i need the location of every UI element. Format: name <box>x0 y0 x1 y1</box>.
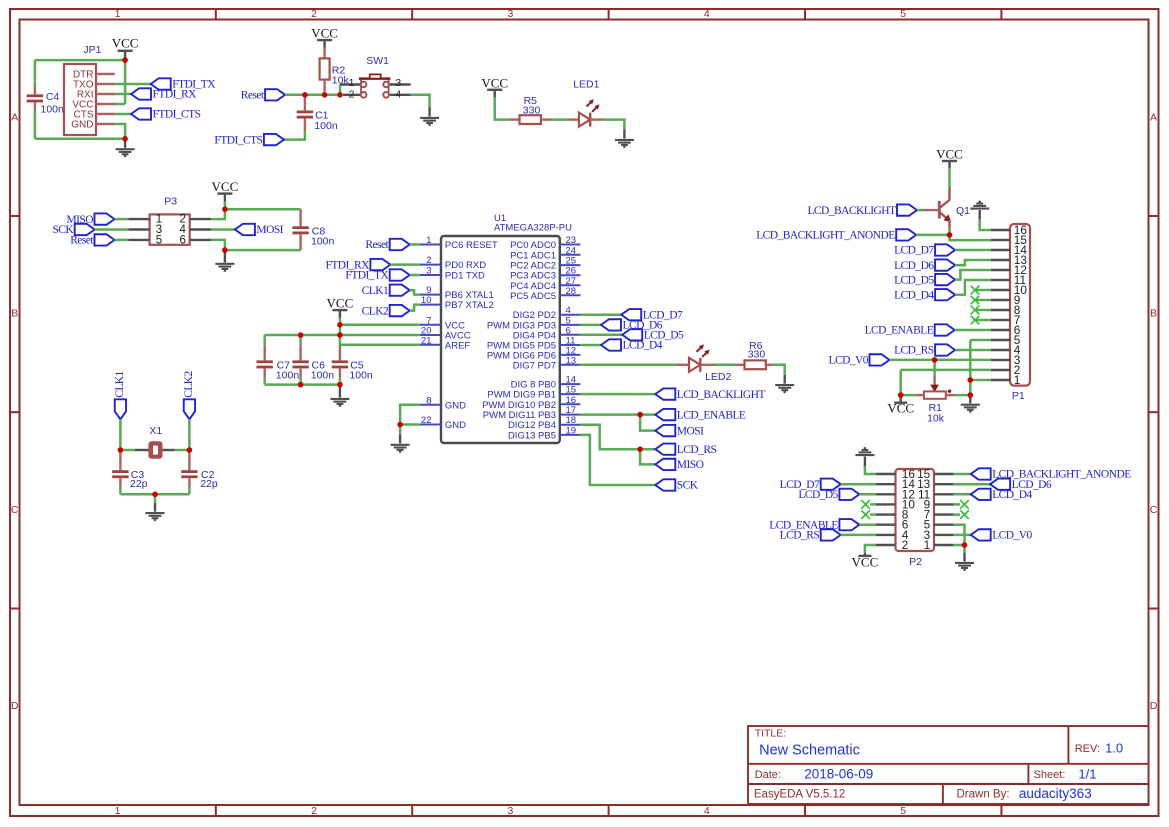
svg-text:CLK2: CLK2 <box>183 370 195 397</box>
svg-text:VCC: VCC <box>311 26 338 41</box>
svg-text:FTDI_CTS: FTDI_CTS <box>153 109 201 121</box>
svg-text:Date:: Date: <box>755 769 781 781</box>
svg-text:CLK1: CLK1 <box>114 370 126 397</box>
svg-text:MOSI: MOSI <box>677 425 704 437</box>
svg-text:10k: 10k <box>332 75 350 87</box>
svg-text:FTDI_CTS: FTDI_CTS <box>214 134 262 146</box>
svg-text:LCD_D5: LCD_D5 <box>798 489 838 501</box>
svg-text:SCK: SCK <box>677 480 699 492</box>
svg-text:LCD_BACKLIGHT: LCD_BACKLIGHT <box>807 205 896 217</box>
svg-text:330: 330 <box>523 104 541 116</box>
svg-text:CLK2: CLK2 <box>362 305 389 317</box>
svg-text:DIG7 PD7: DIG7 PD7 <box>513 360 556 371</box>
svg-text:5: 5 <box>900 805 906 817</box>
svg-text:2: 2 <box>349 89 355 101</box>
svg-text:3: 3 <box>395 77 401 89</box>
svg-text:LCD_D4: LCD_D4 <box>623 340 663 352</box>
svg-text:LCD_D4: LCD_D4 <box>894 289 934 301</box>
svg-text:LED2: LED2 <box>705 371 731 383</box>
svg-text:LCD_RS: LCD_RS <box>894 345 934 357</box>
svg-text:100n: 100n <box>311 369 335 381</box>
svg-text:LCD_V0: LCD_V0 <box>828 355 868 367</box>
svg-text:LCD_D5: LCD_D5 <box>894 274 934 286</box>
svg-text:LCD_BACKLIGHT_ANONDE: LCD_BACKLIGHT_ANONDE <box>756 230 895 242</box>
svg-text:1/1: 1/1 <box>1078 767 1096 782</box>
svg-text:LCD_RS: LCD_RS <box>677 444 717 456</box>
svg-text:PC6 RESET: PC6 RESET <box>445 240 498 251</box>
svg-text:X1: X1 <box>149 425 162 437</box>
svg-text:LCD_D6: LCD_D6 <box>894 260 934 272</box>
svg-text:GND: GND <box>445 400 466 411</box>
svg-text:Reset: Reset <box>241 90 265 102</box>
svg-text:21: 21 <box>421 335 432 346</box>
svg-text:Sheet:: Sheet: <box>1034 769 1066 781</box>
svg-text:Q1: Q1 <box>956 205 970 217</box>
svg-text:LCD_D4: LCD_D4 <box>992 489 1032 501</box>
svg-text:22p: 22p <box>130 478 148 490</box>
svg-text:100n: 100n <box>349 369 373 381</box>
svg-text:2018-06-09: 2018-06-09 <box>804 767 873 782</box>
svg-text:DIG13 PB5: DIG13 PB5 <box>508 430 556 441</box>
svg-text:2: 2 <box>902 538 909 552</box>
svg-text:FTDI_TX: FTDI_TX <box>345 270 389 282</box>
svg-text:100n: 100n <box>41 104 65 116</box>
svg-text:CLK1: CLK1 <box>362 285 389 297</box>
svg-text:3: 3 <box>507 8 513 20</box>
svg-text:Reset: Reset <box>365 239 389 251</box>
svg-text:2: 2 <box>311 8 317 20</box>
svg-text:1: 1 <box>349 77 355 89</box>
svg-text:VCC: VCC <box>936 147 963 162</box>
svg-text:LCD_RS: LCD_RS <box>780 530 820 542</box>
svg-text:VCC: VCC <box>212 179 239 194</box>
svg-text:Reset: Reset <box>70 235 94 247</box>
svg-text:D: D <box>1150 700 1158 712</box>
svg-text:1: 1 <box>426 235 431 246</box>
svg-text:TITLE:: TITLE: <box>755 727 787 739</box>
svg-text:100n: 100n <box>314 120 338 132</box>
svg-text:1: 1 <box>115 805 121 817</box>
svg-text:VCC: VCC <box>887 401 914 416</box>
svg-text:REV:: REV: <box>1075 743 1100 755</box>
svg-text:3: 3 <box>426 266 431 277</box>
svg-text:B: B <box>1150 307 1157 319</box>
svg-text:LED1: LED1 <box>573 78 599 90</box>
svg-text:3: 3 <box>507 805 513 817</box>
svg-text:B: B <box>11 307 18 319</box>
svg-text:8: 8 <box>426 395 431 406</box>
svg-text:10: 10 <box>421 295 432 306</box>
svg-text:JP1: JP1 <box>83 44 101 56</box>
svg-text:D: D <box>11 700 19 712</box>
svg-text:ATMEGA328P-PU: ATMEGA328P-PU <box>494 222 572 233</box>
svg-text:5: 5 <box>156 234 162 246</box>
svg-text:VCC: VCC <box>327 296 354 311</box>
svg-text:330: 330 <box>748 348 766 360</box>
svg-text:LCD_D7: LCD_D7 <box>894 245 934 257</box>
svg-text:1: 1 <box>924 538 931 552</box>
svg-text:LCD_V0: LCD_V0 <box>992 530 1032 542</box>
svg-text:FTDI_RX: FTDI_RX <box>153 89 198 101</box>
svg-text:VCC: VCC <box>852 554 879 569</box>
svg-text:10k: 10k <box>927 412 945 424</box>
svg-text:1: 1 <box>115 8 121 20</box>
svg-text:VCC: VCC <box>112 35 139 50</box>
svg-text:SW1: SW1 <box>366 55 389 67</box>
svg-text:PD0 RXD: PD0 RXD <box>445 260 486 271</box>
svg-text:13: 13 <box>566 355 577 366</box>
svg-text:P3: P3 <box>164 195 177 207</box>
svg-text:28: 28 <box>566 286 577 297</box>
svg-text:4: 4 <box>395 89 401 101</box>
svg-text:P1: P1 <box>1012 390 1025 402</box>
svg-text:C4: C4 <box>46 91 60 103</box>
svg-text:New Schematic: New Schematic <box>759 743 860 759</box>
svg-text:5: 5 <box>900 8 906 20</box>
svg-text:A: A <box>1150 111 1157 123</box>
svg-text:LCD_BACKLIGHT: LCD_BACKLIGHT <box>677 389 766 401</box>
svg-text:100n: 100n <box>311 236 335 248</box>
svg-text:MISO: MISO <box>677 459 704 471</box>
svg-text:100n: 100n <box>276 369 300 381</box>
svg-text:PD1 TXD: PD1 TXD <box>445 271 485 282</box>
svg-text:6: 6 <box>180 234 186 246</box>
svg-text:19: 19 <box>566 425 577 436</box>
svg-text:EasyEDA V5.5.12: EasyEDA V5.5.12 <box>754 789 845 801</box>
svg-text:audacity363: audacity363 <box>1019 786 1092 801</box>
svg-text:GND: GND <box>445 420 466 431</box>
svg-text:MOSI: MOSI <box>256 224 283 236</box>
svg-text:Drawn By:: Drawn By: <box>957 789 1010 801</box>
svg-text:PC5 ADC5: PC5 ADC5 <box>510 291 556 302</box>
svg-text:4: 4 <box>704 805 710 817</box>
svg-text:C: C <box>11 504 19 516</box>
svg-text:P2: P2 <box>909 556 922 568</box>
svg-text:LCD_ENABLE: LCD_ENABLE <box>865 325 934 337</box>
svg-text:1: 1 <box>1014 373 1021 387</box>
svg-text:22p: 22p <box>200 478 218 490</box>
svg-text:1.0: 1.0 <box>1105 741 1123 756</box>
svg-text:2: 2 <box>311 805 317 817</box>
svg-text:4: 4 <box>704 8 710 20</box>
svg-text:VCC: VCC <box>481 75 508 90</box>
svg-text:GND: GND <box>71 120 93 131</box>
svg-text:AREF: AREF <box>445 340 471 351</box>
svg-text:2: 2 <box>426 255 431 266</box>
svg-text:PB7 XTAL2: PB7 XTAL2 <box>445 300 494 311</box>
svg-text:22: 22 <box>421 415 432 426</box>
svg-text:C: C <box>1150 504 1158 516</box>
svg-text:A: A <box>11 111 18 123</box>
svg-text:LCD_ENABLE: LCD_ENABLE <box>677 409 746 421</box>
